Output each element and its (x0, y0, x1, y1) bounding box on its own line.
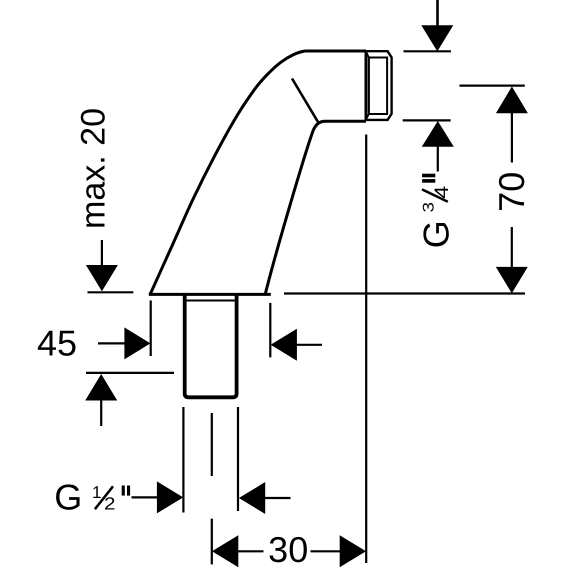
spout body inner outline (neck underside and right edge) (265, 121, 366, 294)
dimension 30 left arrow (212, 535, 238, 567)
dimension G 3/4 bottom arrow (422, 121, 454, 147)
dimension max. 20 top arrow (101, 240, 103, 266)
svg-text:max. 20: max. 20 (74, 108, 112, 229)
dimension max. 20 bottom arrow (85, 374, 117, 401)
G3/4 thread end face (365, 51, 368, 121)
spout body bottom mounting face (149, 293, 271, 296)
extension line max wall depth (86, 372, 174, 374)
extension line mounting plane right (284, 292, 525, 294)
G1/2 threaded tailpiece (185, 295, 237, 398)
extension line outlet end face (365, 135, 367, 564)
extension line mounting plane left (88, 291, 134, 293)
dimension 70 top arrow (496, 87, 528, 114)
dimension G 3/4 top arrow (436, 0, 439, 25)
svg-text:45: 45 (37, 323, 77, 364)
dimension G 1/2 left arrow (132, 496, 158, 498)
extension line tailpiece left (182, 407, 184, 513)
svg-text:G: G (54, 477, 82, 518)
G1/2 tailpiece thread relief line (186, 300, 235, 302)
extension line body left edge (150, 300, 152, 356)
svg-text:4: 4 (431, 186, 453, 199)
svg-text:G: G (415, 220, 456, 248)
extension line outlet axis (459, 84, 524, 86)
dimension 45 right arrow (271, 329, 297, 361)
dimension 45 left arrow (98, 342, 125, 344)
svg-text:30: 30 (268, 529, 308, 568)
spout body outer outline (150, 51, 366, 294)
svg-text:1: 1 (92, 483, 101, 502)
extension line tailpiece right (237, 407, 239, 511)
G3/4 thread inner (root) lines (369, 58, 387, 115)
dimension 30 right arrow (311, 550, 341, 552)
spout body crease line (292, 79, 318, 123)
dimension G 1/2 right arrow (239, 482, 265, 514)
svg-text:2: 2 (104, 493, 116, 513)
G3/4 thread outer profile (366, 51, 392, 120)
svg-text:3: 3 (421, 202, 438, 213)
label G 1/2 (54, 477, 130, 518)
centerline tailpiece (211, 413, 213, 564)
svg-text:70: 70 (491, 172, 532, 212)
label G 3/4 (415, 174, 456, 249)
extension line body right edge (269, 303, 271, 358)
dimension 70 bottom arrow (496, 267, 528, 293)
G3/4 thread left chamfer lines (366, 51, 369, 120)
extension line thread bottom (403, 119, 451, 121)
extension line thread top (404, 50, 451, 52)
